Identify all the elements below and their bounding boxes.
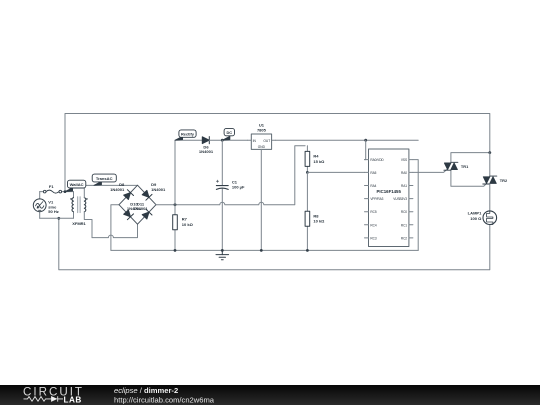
wire secondary top to bridge	[84, 185, 137, 197]
ground rail	[111, 249, 418, 251]
label XFMR1	[72, 221, 86, 226]
diode D8	[124, 190, 134, 200]
wire bridge minus to ground rail	[111, 205, 119, 251]
svg-text:50 Hz: 50 Hz	[48, 209, 58, 214]
svg-text:RC2: RC2	[401, 236, 407, 240]
svg-text:1N4001: 1N4001	[133, 206, 148, 211]
wire under bridge with hop	[92, 224, 138, 237]
svg-text:1N4001: 1N4001	[199, 149, 214, 154]
svg-text:RC1: RC1	[401, 223, 407, 227]
svg-text:R8: R8	[313, 213, 319, 218]
svg-text:RC3: RC3	[370, 236, 376, 240]
triac TR1	[444, 153, 490, 187]
wire secondary bottom to bridge bottom	[84, 212, 92, 238]
wire bridge plus rail	[156, 146, 305, 205]
svg-text:VSS: VSS	[401, 158, 407, 162]
label LAMP1 100 ohm	[468, 211, 482, 221]
wire mains bottom border loop	[59, 218, 490, 269]
label R4 15 k	[313, 154, 325, 164]
flag DC	[222, 128, 234, 140]
wire bus above TR2	[489, 153, 491, 177]
resistor R7	[173, 205, 178, 251]
svg-text:1N4001: 1N4001	[110, 187, 125, 192]
junction C1 bottom / ground	[221, 249, 224, 252]
svg-text:R7: R7	[182, 217, 188, 222]
svg-text:GND: GND	[258, 145, 266, 149]
flag TransAC	[92, 174, 116, 185]
svg-text:C1: C1	[232, 179, 238, 184]
label D10 D11 overlapped	[127, 201, 148, 211]
label R8 10 k	[313, 213, 325, 223]
transformer XFMR1	[70, 192, 88, 219]
svg-text:PIC16F1455: PIC16F1455	[377, 189, 402, 194]
junction V1 bottom / neutral riser	[57, 217, 60, 220]
svg-text:DC: DC	[226, 130, 232, 135]
flag Rectify	[175, 130, 196, 140]
wire RA0 to TR1 gate	[413, 170, 447, 173]
svg-text:VPP/RA3: VPP/RA3	[370, 197, 383, 201]
junction DC node tee	[221, 139, 224, 142]
wire rectify riser	[175, 140, 202, 205]
capacitor C1	[216, 140, 228, 250]
lamp LAMP1	[483, 211, 497, 225]
svg-text:RC0: RC0	[401, 210, 407, 214]
svg-text:TR1: TR1	[461, 164, 469, 169]
svg-text:WallAC: WallAC	[70, 182, 84, 187]
svg-text:VUSB3V3: VUSB3V3	[393, 197, 407, 201]
IC U2 PIC16F1455	[365, 149, 413, 247]
svg-text:15 kΩ: 15 kΩ	[313, 159, 325, 164]
junction TR1 top / right bus	[488, 151, 491, 154]
svg-text:XFMR1: XFMR1	[72, 221, 86, 226]
svg-text:10 kΩ: 10 kΩ	[182, 222, 194, 227]
label V1 sine 50 Hz	[48, 200, 58, 214]
resistor R4	[305, 146, 310, 173]
svg-text:RC4: RC4	[370, 223, 376, 227]
junction left-riser/fuse-wire	[64, 190, 67, 193]
wire 5V rail	[276, 139, 419, 141]
svg-text:eclipse / dimmer-2: eclipse / dimmer-2	[114, 386, 178, 395]
svg-text:OUT: OUT	[263, 139, 270, 143]
bridge diamond wires	[119, 185, 156, 224]
svg-text:RA1: RA1	[401, 184, 407, 188]
junction R7 bottom	[174, 249, 177, 252]
svg-text:RA0: RA0	[401, 171, 407, 175]
wire U1 GND down	[260, 149, 262, 250]
svg-text:R4: R4	[313, 154, 319, 159]
svg-text:F1: F1	[49, 184, 54, 189]
logo resistor-diode squiggle	[24, 396, 64, 401]
wire V1 bottom to primary bottom	[40, 217, 74, 219]
regulator U1 7805	[247, 134, 275, 149]
wire mains top border loop	[65, 114, 490, 192]
svg-text:1N4001: 1N4001	[151, 187, 166, 192]
label C1 100 uF	[232, 179, 245, 189]
wire divider to RA5	[307, 171, 364, 173]
label D9 1N4001	[151, 182, 166, 192]
junction divider node	[306, 171, 309, 174]
flag WallAC	[65, 180, 86, 191]
diode D6	[202, 137, 209, 144]
junction 5V rail / VDD drop	[364, 139, 367, 142]
fuse F1	[40, 190, 74, 193]
label F1	[49, 184, 54, 189]
diode D10	[124, 210, 134, 220]
wire VSS to ground riser	[413, 160, 418, 251]
voltage source V1	[33, 192, 46, 219]
junction U1 GND / ground rail	[260, 249, 263, 252]
svg-text:100 µF: 100 µF	[232, 185, 245, 190]
svg-text:RC5: RC5	[370, 210, 376, 214]
svg-text:TR2: TR2	[500, 178, 508, 183]
junction R8 bottom	[306, 249, 309, 252]
ground symbol	[216, 250, 229, 259]
resistor R8	[305, 172, 310, 250]
label D6 1N4001	[199, 144, 214, 154]
label U1 7805	[257, 123, 267, 133]
label D8 1N4001	[110, 182, 125, 192]
wire D6 to U1 IN	[209, 139, 247, 141]
svg-text:100 Ω: 100 Ω	[470, 216, 482, 221]
svg-text:TransAC: TransAC	[96, 176, 113, 181]
svg-text:http://circuitlab.com/cn2w6ma: http://circuitlab.com/cn2w6ma	[114, 396, 215, 405]
svg-text:LAMP1: LAMP1	[468, 211, 482, 216]
svg-text:10 kΩ: 10 kΩ	[313, 219, 325, 224]
label R7 10 k	[182, 217, 194, 227]
junction bridge plus / rectify riser / R7	[174, 203, 177, 206]
svg-text:Rectify: Rectify	[181, 132, 195, 137]
wire VDD drop	[365, 140, 366, 159]
svg-text:RA0/VDD: RA0/VDD	[370, 158, 384, 162]
svg-text:RA5: RA5	[370, 171, 376, 175]
svg-text:7805: 7805	[257, 128, 267, 133]
diode D11	[142, 209, 152, 219]
wire bus TR2 to lamp	[489, 184, 491, 211]
svg-text:RA4: RA4	[370, 184, 376, 188]
svg-text:LAB: LAB	[64, 395, 82, 404]
diode D9	[142, 190, 152, 200]
triac TR2	[483, 176, 497, 184]
